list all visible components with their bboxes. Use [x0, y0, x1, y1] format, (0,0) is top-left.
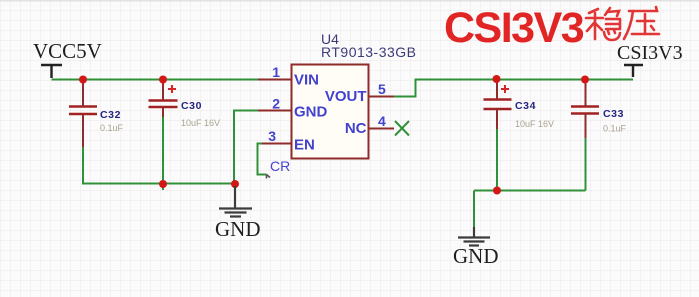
ground left — [219, 186, 252, 217]
power port VCC5V — [41, 65, 62, 78]
ground right — [458, 227, 490, 246]
svg-text:5: 5 — [378, 81, 386, 97]
pin 5 VOUT stub — [368, 96, 394, 98]
wire VOUT to top-right rail — [394, 80, 633, 97]
svg-text:4: 4 — [378, 113, 386, 129]
pin 3 EN stub — [262, 143, 291, 145]
svg-text:GND: GND — [294, 104, 328, 121]
junction at left ground — [231, 180, 239, 188]
wire C32 lower to bottom-left bus — [83, 147, 235, 184]
wire C30 lower stub through bus — [162, 117, 164, 190]
junction at C32 top — [79, 76, 87, 84]
svg-text:10uF 16V: 10uF 16V — [181, 118, 220, 128]
top edge line — [0, 0, 699, 2]
no-connect X on pin 4 — [395, 121, 409, 136]
svg-text:VOUT: VOUT — [325, 88, 367, 105]
junction at C34 bottom — [493, 187, 501, 195]
power port CSI3V3 — [624, 65, 643, 77]
svg-text:C30: C30 — [181, 100, 202, 112]
svg-text:1: 1 — [272, 64, 280, 80]
junction at C34 top — [493, 75, 501, 83]
title hanzi WEN (stable) — [586, 8, 620, 40]
svg-text:GND: GND — [215, 217, 261, 241]
wire end tick at CR — [267, 175, 271, 179]
svg-text:NC: NC — [345, 120, 367, 137]
svg-text:EN: EN — [294, 137, 315, 154]
svg-text:CSI3V3: CSI3V3 — [617, 42, 683, 64]
capacitor C32 — [69, 80, 124, 148]
junction at C30 top — [159, 76, 167, 84]
svg-text:C32: C32 — [100, 109, 121, 121]
wire C33 lower to bus — [585, 138, 587, 191]
svg-text:10uF 16V: 10uF 16V — [515, 119, 554, 129]
pin 2 GND stub — [258, 110, 291, 112]
pin 1 VIN stub — [258, 79, 291, 81]
svg-text:C33: C33 — [603, 108, 624, 120]
wire GND pin2 to bus — [234, 111, 258, 185]
junction at C30 bottom — [159, 180, 167, 188]
wire EN to CR stub — [258, 144, 267, 175]
op-amp U4 body RT9013-33GB — [292, 65, 369, 159]
svg-text:3: 3 — [268, 128, 276, 144]
wire bottom-right bus — [474, 190, 586, 192]
svg-text:C34: C34 — [515, 100, 536, 112]
svg-text:2: 2 — [272, 96, 280, 112]
svg-text:CR: CR — [270, 158, 290, 174]
svg-text:VIN: VIN — [294, 72, 319, 89]
wire C34 lower to bottom-right bus — [496, 129, 498, 191]
capacitor C30 (polarized) — [149, 80, 221, 129]
svg-text:RT9013-33GB: RT9013-33GB — [321, 44, 417, 60]
svg-text:CSI3V3: CSI3V3 — [444, 4, 584, 52]
wire bus to right ground — [473, 191, 475, 228]
wire top-left rail VCC5V to pin1 — [52, 79, 259, 81]
svg-text:0.1uF: 0.1uF — [100, 123, 124, 133]
junction at C33 top — [581, 76, 589, 84]
svg-text:GND: GND — [453, 244, 499, 268]
pin 4 NC stub — [368, 128, 394, 130]
svg-text:0.1uF: 0.1uF — [603, 124, 627, 134]
title hanzi YA (pressure) — [624, 7, 659, 39]
capacitor C34 (polarized) — [484, 80, 555, 130]
svg-text:VCC5V: VCC5V — [33, 39, 102, 63]
capacitor C33 — [571, 80, 627, 138]
